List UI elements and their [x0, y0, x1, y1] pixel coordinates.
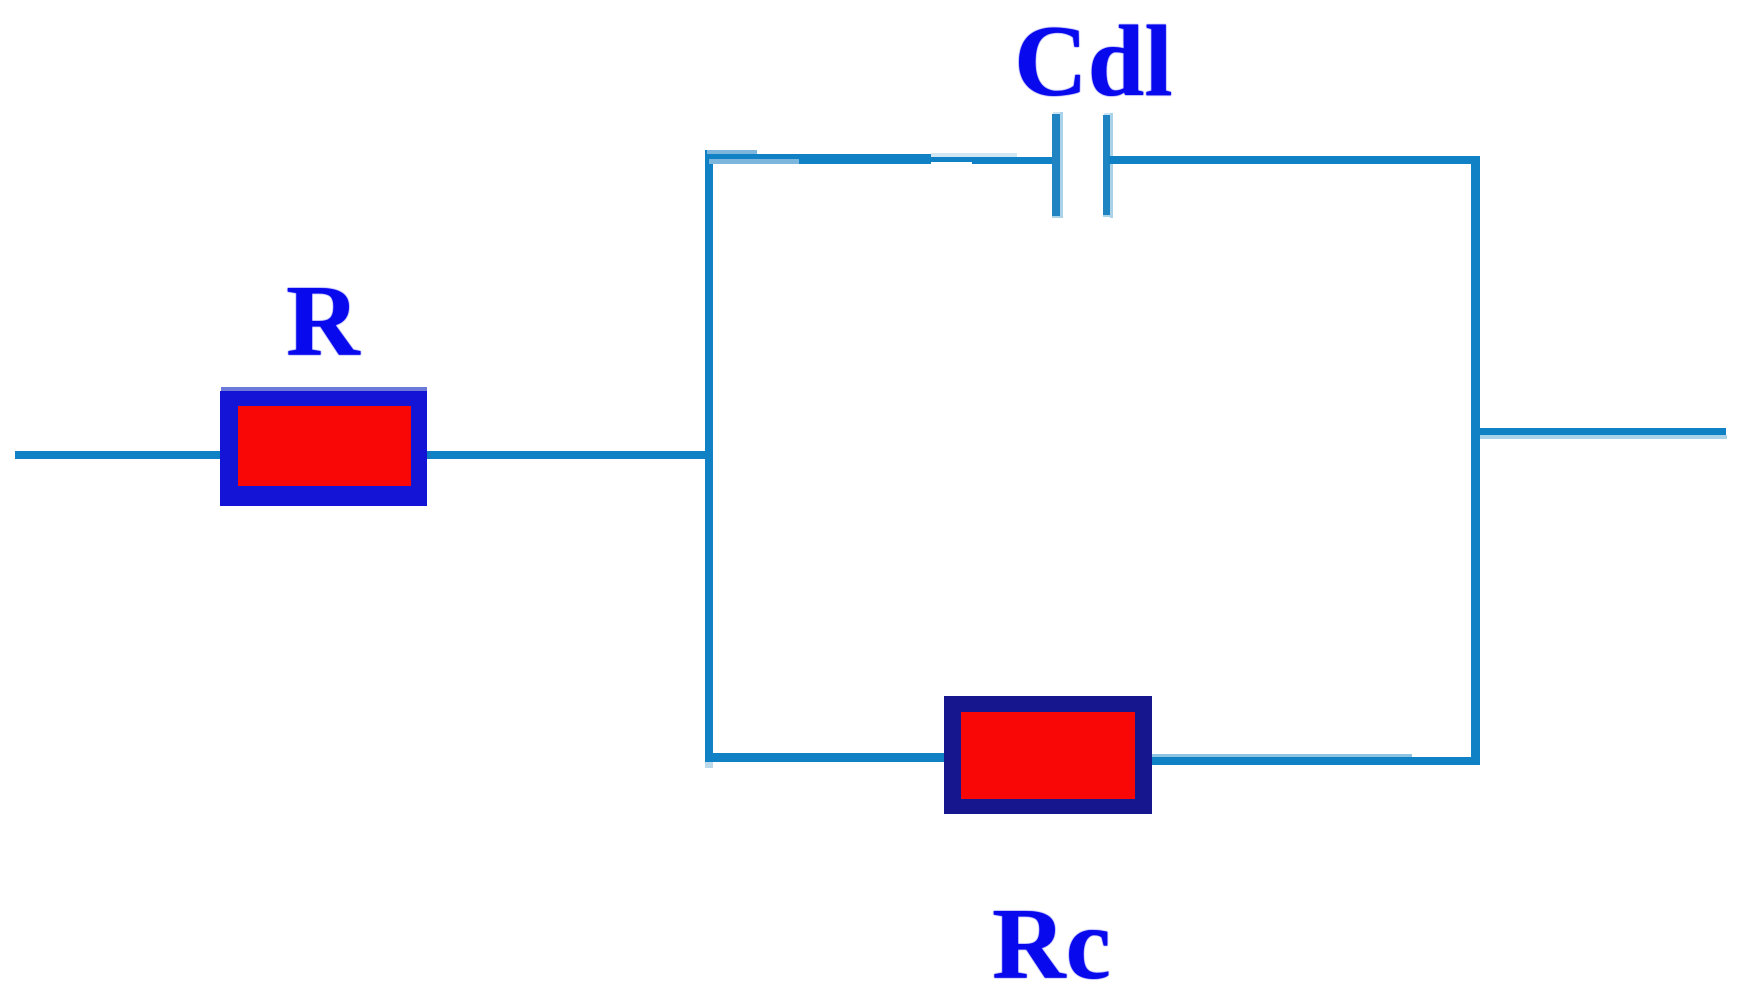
capacitor Cdl [1052, 111, 1114, 221]
wire: top branch right (Cdl right plate to node B) [1109, 156, 1480, 164]
wire: output lead (node B to right terminal) [1480, 428, 1726, 435]
wire: bottom-left corner light stub [705, 762, 713, 768]
wire: output lead light halo [1480, 435, 1727, 439]
wire: right branch vertical (node B to output junction) [1471, 156, 1480, 765]
wire: input lead (left terminal to node A) [15, 451, 707, 459]
wire: bottom branch right light segment [1152, 754, 1412, 758]
label Rc (value label for resistor Rc) [992, 895, 1111, 995]
label R (value label for resistor R) [286, 272, 360, 372]
wire: bottom branch left (left vertical to resistor Rc) [705, 753, 944, 762]
wire: left branch vertical (node A to bottom branch) [705, 150, 713, 761]
resistor Rc [944, 696, 1152, 814]
label Cdl (value label for capacitor Cdl) [1014, 12, 1173, 112]
wire: bottom branch right (resistor Rc to right vertical) [1152, 757, 1480, 765]
resistor R [220, 387, 427, 506]
wire: top branch left (node A to Cdl left plate, stepped two-tone strokes) [707, 150, 1053, 164]
